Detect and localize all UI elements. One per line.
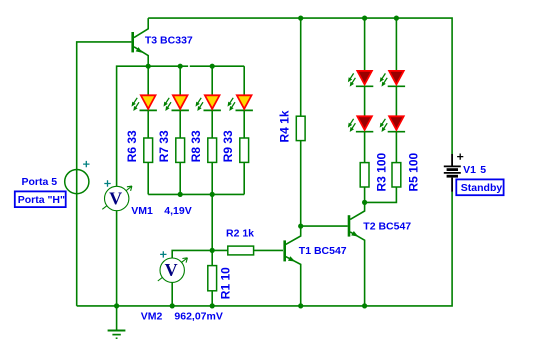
svg-text:T2 BC547: T2 BC547	[363, 221, 411, 233]
svg-text:R1 10: R1 10	[219, 267, 233, 299]
svg-text:T1 BC547: T1 BC547	[299, 245, 347, 257]
svg-text:V: V	[165, 260, 178, 280]
svg-text:Standby: Standby	[461, 182, 503, 194]
svg-text:Porta "H": Porta "H"	[18, 194, 65, 206]
svg-text:Porta 5: Porta 5	[22, 176, 58, 188]
svg-text:R7 33: R7 33	[157, 130, 171, 162]
svg-text:R9 33: R9 33	[221, 130, 235, 162]
svg-text:T3 BC337: T3 BC337	[145, 35, 193, 47]
svg-text:4,19V: 4,19V	[164, 205, 191, 217]
svg-text:5: 5	[480, 164, 486, 176]
svg-text:R8 33: R8 33	[189, 130, 203, 162]
svg-text:R5 100: R5 100	[407, 152, 421, 191]
svg-text:R6 33: R6 33	[125, 130, 139, 162]
svg-text:V: V	[109, 188, 122, 208]
svg-text:VM1: VM1	[131, 205, 153, 217]
svg-text:VM2: VM2	[141, 311, 163, 323]
svg-text:R3 100: R3 100	[375, 152, 389, 191]
svg-text:V1: V1	[463, 164, 476, 176]
svg-text:R2 1k: R2 1k	[226, 228, 254, 240]
svg-text:R4 1k: R4 1k	[278, 110, 292, 142]
svg-text:962,07mV: 962,07mV	[174, 311, 222, 323]
